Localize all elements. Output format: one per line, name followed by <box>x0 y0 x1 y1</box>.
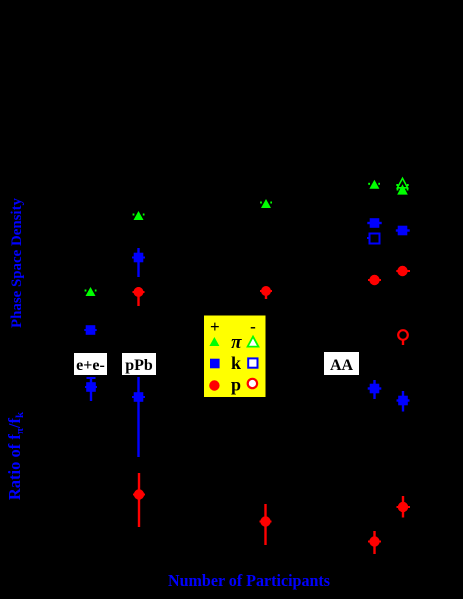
legend box <box>204 316 266 398</box>
ratio section: pPb p y-error bar <box>138 473 140 527</box>
AA column 1: pi x-error caps <box>368 183 380 185</box>
ratio section: e+e- k x-error caps <box>85 386 97 388</box>
mid column: pi x-error caps <box>260 202 272 204</box>
e+e- column: k x-error caps <box>84 329 96 331</box>
svg-text:p: p <box>231 375 241 395</box>
legend: filled green triangle pi+ <box>209 337 219 346</box>
ratio section: e+e- k y-error bar <box>90 378 92 402</box>
ratio section: AA1 p x-error caps <box>368 541 381 543</box>
AA column 2: open green triangle pi- <box>397 178 407 188</box>
e+e- column: green triangle pi <box>86 287 96 296</box>
legend: k symbol <box>231 353 241 373</box>
ratio section: AA2 blue square k <box>398 396 408 406</box>
svg-text:e+e-: e+e- <box>76 357 105 374</box>
ratio section: e+e- blue square k <box>86 382 96 392</box>
AA column 1: open blue square k- <box>370 234 380 244</box>
pPb column: pi x-error caps <box>133 214 145 216</box>
svg-text:k: k <box>231 353 241 373</box>
svg-text:-: - <box>250 317 256 336</box>
legend: open red circle pbar <box>248 379 257 388</box>
AA label box <box>324 352 359 375</box>
ratio section: AA2 p y-error bar <box>402 496 404 518</box>
pPb column: green triangle pi <box>134 211 144 220</box>
ratio section: e+e- k y-error top cap <box>87 377 96 379</box>
legend: filled blue square k+ <box>210 359 220 369</box>
ratio section: AA2 k y-error bar <box>402 391 404 412</box>
pPb column: k x-error caps <box>132 257 145 259</box>
e+e- column: pi x-error caps <box>85 290 97 292</box>
ratio section: mid p y-error bar <box>264 504 266 545</box>
ratio section: mid red circle p <box>260 516 270 526</box>
AA column 2: green triangle pi <box>397 184 408 194</box>
legend: plus header <box>210 317 220 336</box>
ratio section: AA1 k y-error bar <box>373 380 375 399</box>
AA open red circle pbar <box>398 330 408 340</box>
AA column 1: red circle p <box>369 275 379 285</box>
AA column 1: blue square k <box>370 218 380 228</box>
AA column 2: k x-error caps <box>396 229 410 231</box>
AA column 1: green triangle pi <box>369 180 379 189</box>
ratio section: AA1 k x-error caps <box>368 387 382 389</box>
AA column 2: pi x-error caps <box>396 185 408 190</box>
ratio section: pPb k y-error bar <box>137 377 139 457</box>
AA column 1: k x-error caps <box>367 222 381 224</box>
ratio section: AA2 p x-error caps <box>397 506 411 508</box>
legend: filled red circle p <box>209 380 219 390</box>
svg-text:Ratio of fπ/fk: Ratio of fπ/fk <box>5 411 26 500</box>
ratio section: AA2 red circle p <box>398 502 408 512</box>
pPb column: p x-error caps <box>133 291 145 293</box>
svg-text:π: π <box>231 332 242 353</box>
ratio section: pPb red circle p <box>134 489 144 499</box>
legend: pi symbol <box>231 332 242 353</box>
AA open red circle pbar y-error stub <box>402 340 404 345</box>
svg-text:pPb: pPb <box>125 357 153 374</box>
ratio section: pPb p x-error caps <box>133 494 145 496</box>
e+e- column: blue square k <box>86 325 96 335</box>
y-axis label: Phase Space Density <box>9 198 25 328</box>
mid column: p y-error bar <box>265 287 267 299</box>
mid column: p x-error caps <box>260 290 272 292</box>
ratio section: pPb blue square k <box>134 392 144 402</box>
legend: open green triangle pi- <box>248 337 259 347</box>
legend: p symbol <box>231 375 241 395</box>
svg-text:AA: AA <box>330 357 354 374</box>
pPb label box <box>122 353 156 375</box>
pPb column: p y-error bar <box>137 287 139 306</box>
ratio section: AA2 k x-error caps <box>397 399 410 401</box>
svg-text:Number of Participants: Number of Participants <box>168 571 330 590</box>
ratio section: AA1 blue square k <box>370 384 380 394</box>
y-axis label: Ratio of f_pi/f_k <box>5 411 26 500</box>
pPb column: red circle p <box>134 287 144 297</box>
pPb column: k y-error bar <box>137 248 139 277</box>
mid column: red circle p <box>261 286 271 296</box>
AA column 1: p x-error caps <box>368 279 381 281</box>
mid column: green triangle pi <box>261 199 271 208</box>
svg-text:+: + <box>210 317 220 336</box>
pPb column: blue square k <box>134 253 144 263</box>
ratio section: AA1 red circle p <box>369 536 379 546</box>
AA column 2: p x-error caps <box>396 270 410 272</box>
svg-text:Phase Space Density: Phase Space Density <box>9 198 25 328</box>
ratio section: AA1 p y-error bar <box>373 531 375 554</box>
ratio section: pPb k x-error caps <box>132 396 145 398</box>
ratio section: mid p x-error caps <box>260 521 272 523</box>
e+e- label box <box>74 353 107 375</box>
AA column 2: red circle p <box>397 266 407 276</box>
legend: open blue square k- <box>248 358 257 367</box>
legend: minus header <box>250 317 256 336</box>
AA column 2: blue square k <box>398 226 408 236</box>
x-axis label: Number of Participants <box>168 571 330 590</box>
AA column 1: open square k- left cap <box>367 237 370 239</box>
